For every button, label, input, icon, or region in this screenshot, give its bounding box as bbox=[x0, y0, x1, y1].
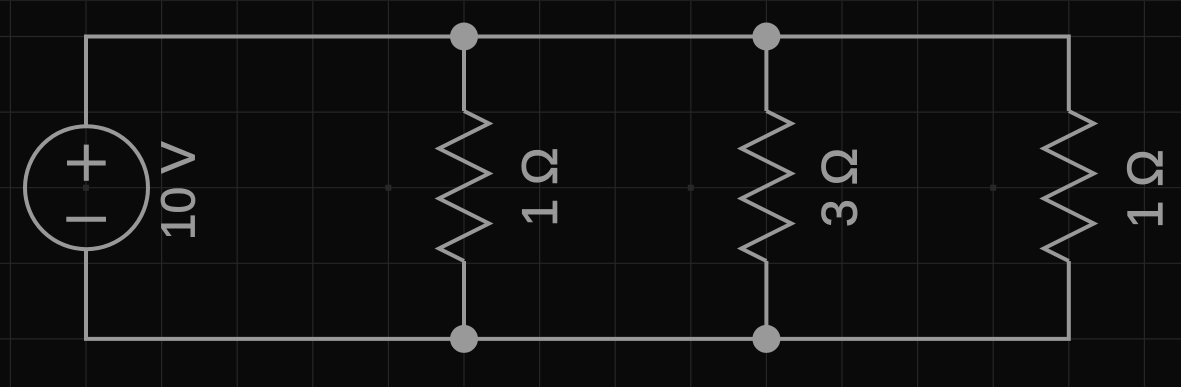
label 1 ohm R3 bbox=[1127, 152, 1162, 225]
voltage source V1 (10 V) bbox=[25, 126, 148, 249]
wire bottom bbox=[86, 249, 1069, 339]
junction node top-left bbox=[450, 23, 478, 51]
resistor R1 (1 ohm) bbox=[439, 37, 489, 339]
label 10 V bbox=[161, 142, 195, 237]
label 1 ohm R1 bbox=[522, 150, 557, 223]
wire top and left bbox=[86, 37, 1069, 127]
junction node bottom-right bbox=[752, 325, 780, 353]
label 3 ohm R2 bbox=[822, 150, 857, 225]
resistor R2 (3 ohm) bbox=[741, 37, 791, 339]
junction node top-right bbox=[752, 23, 780, 51]
junction node bottom-left bbox=[450, 325, 478, 353]
resistor R3 (1 ohm) bbox=[1044, 111, 1094, 261]
